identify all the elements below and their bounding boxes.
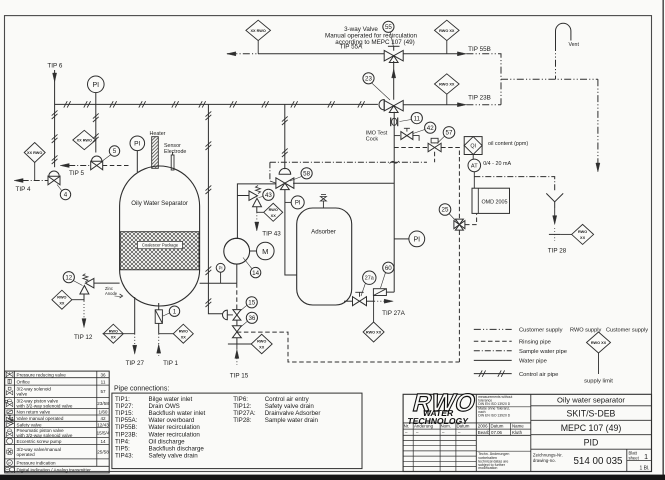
rinse loop pipe [237,332,460,362]
control air slashes v1 [52,110,58,115]
PI gauge separator [130,136,145,151]
PI gauge riser [409,231,425,247]
svg-text:Pressure indication: Pressure indication [17,461,57,466]
svg-text:TIP 4: TIP 4 [16,186,31,193]
legend control air line [474,373,512,375]
svg-text:Nr.: Nr. [404,424,410,429]
svg-text:TIP55A:: TIP55A: [115,417,138,424]
svg-text:RWO XX: RWO XX [591,341,607,345]
svg-text:23: 23 [365,76,372,83]
svg-text:XX: XX [259,346,265,350]
control air main vertical TIP6 [54,70,56,167]
arrow TIP 55B [457,52,466,56]
svg-text:15: 15 [248,300,255,307]
svg-text:36: 36 [248,315,255,322]
pipe TIP43 drain [256,207,258,213]
svg-text:Water recirculation: Water recirculation [149,424,201,431]
svg-text:XX: XX [181,335,187,339]
pipe overboard right segment [403,53,459,55]
svg-text:oil content (ppm): oil content (ppm) [488,141,528,147]
valve 15 piston [233,310,241,315]
svg-text:23/58: 23/58 [97,401,109,406]
svg-text:1: 1 [173,308,177,315]
label circle 43 [263,189,274,200]
svg-text:25: 25 [442,207,449,214]
svg-text:Control air entry: Control air entry [265,396,310,403]
svg-text:Safety valve: Safety valve [17,422,42,427]
svg-text:Safety valve drain: Safety valve drain [265,403,315,410]
valve 57 solenoid [428,143,435,152]
svg-text:57: 57 [446,130,453,137]
svg-text:PID: PID [584,437,599,447]
svg-text:TIP27A:: TIP27A: [233,410,256,417]
svg-text:TIP12:: TIP12: [233,403,252,410]
supply limit diamond TIP1 [173,324,193,343]
valve 58 3-way piston [276,178,285,189]
pipe TIP55A customer segment [227,53,258,55]
svg-text:12/43: 12/43 [97,422,109,427]
svg-text:TIP15:: TIP15: [115,410,134,417]
svg-text:TIP 43: TIP 43 [262,231,281,238]
valve 4 piston [48,176,54,185]
legend supply limit diamond [587,332,611,353]
svg-text:Cock: Cock [366,137,379,143]
label circle 14 [250,267,260,277]
svg-text:5: 5 [113,148,117,155]
svg-text:XX: XX [59,301,65,305]
svg-text:36: 36 [100,372,106,377]
pipe TIP15 [236,338,238,344]
svg-text:12: 12 [65,274,72,281]
supply limit diamond TIP12 [52,290,72,309]
pipe valve58 down to adsorber [285,189,297,275]
label circle 42 [425,122,436,133]
svg-text:Datum: Datum [491,424,504,429]
svg-text:Backflush discharge: Backflush discharge [149,446,205,453]
svg-text:QI: QI [470,143,476,149]
heater hatched rect [152,137,159,169]
control air branch valve58 [284,104,286,169]
eccentric screw pump 14 [224,238,250,264]
supply limit diamond TIP23B [435,74,460,94]
svg-text:TIP6:: TIP6: [233,396,248,403]
pipe valve5 to separator [103,165,131,167]
control air main horizontal [55,103,378,105]
svg-text:Customer supply: Customer supply [606,328,648,334]
svg-text:Nom.: Nom. [441,424,452,429]
label circle 36 [246,312,257,323]
label circle 27a [363,271,376,284]
svg-text:XX RWO: XX RWO [77,139,92,143]
svg-text:Water overboard: Water overboard [149,417,195,424]
svg-text:PI: PI [413,236,420,243]
svg-text:RWO: RWO [269,208,278,212]
pipe TIP1 inlet upper [158,303,160,334]
svg-text:XX: XX [271,214,277,218]
rinse pipe below valve25 [458,231,460,363]
svg-text:TIP4:: TIP4: [115,438,130,445]
label circle 11 [411,113,422,124]
supply limit diamond above overboard line [246,20,271,40]
control air slashes v2 [93,113,99,118]
svg-text:1 Bl.: 1 Bl. [639,465,649,471]
svg-text:sheet: sheet [629,455,640,460]
svg-text:11: 11 [414,115,421,122]
pipe valve58 outlet right [293,182,394,184]
svg-text:Non return valve: Non return valve [17,410,51,415]
IMO test cock 11 [390,118,392,127]
coalescer crosshatch band [120,232,199,270]
svg-text:RWO XX: RWO XX [439,29,455,33]
svg-text:Oil discharge: Oil discharge [149,438,186,445]
svg-text:Adsorber: Adsorber [311,229,336,236]
pipe TIP1 lower [158,334,160,356]
control air slashes v3 [282,116,288,121]
P gauge pump suction [216,263,225,272]
sample pipe horizontal [270,161,427,163]
valve 27a manual [353,297,360,306]
rinse riser to valve25 [458,157,460,219]
sample branch valve57 left [394,147,427,149]
sample pipe drop to valve58 [269,162,271,181]
pipe TIP5 left [69,165,91,167]
coalescer package label [138,242,183,249]
legend customer supply line [474,328,512,330]
svg-text:PI: PI [92,82,99,89]
svg-text:DIN EN ISO 13920 D: DIN EN ISO 13920 D [478,402,511,406]
sample out pipe to funnel [474,177,554,191]
svg-text:DIN EN ISO 13920 D: DIN EN ISO 13920 D [478,413,511,417]
label circle 57 [443,127,455,139]
pipe TIP4 [23,180,48,182]
control air slashes v4 [206,111,212,116]
label circle 1 [169,306,179,316]
valve 12 safety [85,278,94,288]
pipe pump discharge [237,184,276,238]
svg-text:TIP5:: TIP5: [115,446,130,453]
pipe pump suction down to valve15 [236,283,238,309]
scan right edge line [662,0,664,480]
customer pipe 55B corner [466,54,501,105]
svg-text:Water pipe: Water pipe [519,359,547,365]
svg-text:drawing-no.: drawing-no. [533,458,556,463]
valve 55 3-way manual [384,50,394,61]
svg-text:Sample water drain: Sample water drain [265,417,319,424]
actuator dome valve 58 [279,168,291,174]
pipe valve25 to OMD [465,214,477,225]
sample branch valve57 down [434,152,436,163]
label circle 60 [383,262,394,273]
adsorber vessel shell [297,208,352,305]
svg-text:TIP 1: TIP 1 [163,360,178,367]
supply limit diamond TIP28 [572,224,594,244]
svg-text:TIP23B:: TIP23B: [115,431,138,438]
svg-text:TIP 28: TIP 28 [548,247,567,254]
pipe branch to valve43 [237,195,249,197]
svg-text:1: 1 [644,454,648,461]
svg-text:Customer supply: Customer supply [519,328,563,334]
pipe pump suction vertical [236,264,238,283]
svg-text:Sample water pipe: Sample water pipe [519,349,567,355]
svg-text:TIP43:: TIP43: [115,453,134,460]
svg-text:Drainvalve Adsorber: Drainvalve Adsorber [265,410,321,417]
supply limit diamond TIP27 [103,324,123,343]
svg-text:42: 42 [100,416,106,421]
svg-text:2006: 2006 [478,424,488,429]
legend water pipe line [474,359,512,361]
svg-text:14: 14 [252,270,259,277]
customer pipe horizontal y79 [501,78,598,80]
pump motor M [257,242,275,260]
svg-text:Backflush water inlet: Backflush water inlet [149,410,206,417]
svg-text:TIP 55A: TIP 55A [340,43,363,50]
supply limit diamond TIP43 [264,203,283,221]
svg-text:PI: PI [134,141,140,148]
svg-text:with 3/2-way solenoid valve: with 3/2-way solenoid valve [17,433,73,438]
arrow TIP 4 [14,178,23,182]
svg-text:Valve manual operated: Valve manual operated [17,416,64,421]
label circle 15 [246,297,257,308]
supply limit diamond TIP4 [24,143,45,163]
pipe AT to OMD [473,172,475,189]
vent pipe [555,44,557,79]
svg-text:Bearb: Bearb [478,430,490,435]
legend rinsing pipe line [474,340,512,342]
svg-text:11: 11 [101,379,106,384]
svg-text:Drain OWS: Drain OWS [149,403,180,410]
svg-text:4: 4 [64,192,68,199]
svg-text:XX RWO: XX RWO [251,29,266,33]
svg-text:514 00 035: 514 00 035 [573,456,623,467]
label circle 55 [383,21,394,32]
svg-text:TIP 27A: TIP 27A [382,310,405,317]
svg-text:TIP 5: TIP 5 [69,170,84,177]
svg-text:1/60: 1/60 [99,410,108,415]
svg-text:58: 58 [303,171,310,178]
svg-text:RWO: RWO [109,329,118,333]
arrow TIP28 funnel [554,208,556,217]
svg-text:Safety valve drain: Safety valve drain [149,453,199,460]
svg-text:Digital indication / Analog tr: Digital indication / Analog transmitter [17,468,92,473]
svg-text:modification: modification [478,466,497,470]
svg-text:15/5/4: 15/5/4 [97,430,110,435]
svg-text:RWO: RWO [57,295,66,299]
svg-text:Orifice: Orifice [17,379,31,384]
label circle 58 [301,168,312,179]
svg-text:TIP 55B: TIP 55B [468,46,491,53]
arrow TIP 55A [227,52,236,56]
svg-text:M: M [262,247,268,256]
supply limit diamond TIP55B [435,20,460,40]
svg-text:Heater: Heater [150,131,166,137]
svg-text:TIP 23B: TIP 23B [468,95,491,102]
svg-text:27a: 27a [365,276,374,282]
control air branch valve15 [208,104,223,313]
svg-text:Datum: Datum [457,424,470,429]
PI gauge control air [88,76,105,93]
pipe adsorber drain [344,300,352,302]
svg-text:TIP 15: TIP 15 [230,373,249,380]
svg-text:PI: PI [219,265,223,270]
check valve 60 rect with diagonal [374,291,395,293]
supply limit diamond TIP15 [251,334,272,353]
supply limit diamond on valve5 branch [73,130,96,149]
check valve 1 rect with diagonal [155,310,162,324]
svg-text:Oily water separator: Oily water separator [557,396,625,405]
title block [403,394,651,471]
legend sample water line [474,350,512,352]
pipe vessel to valve12 [94,282,120,284]
svg-text:supply limit: supply limit [584,379,613,385]
valve 36 piston [232,326,241,332]
svg-text:TIP1:: TIP1: [115,396,130,403]
pipe recirc right segment [403,104,459,106]
pipe break squiggle [390,161,399,163]
valve 43 safety [249,191,258,200]
svg-text:Rinsing pipe: Rinsing pipe [519,339,551,345]
svg-text:TIP55B:: TIP55B: [115,424,138,431]
svg-text:14: 14 [100,439,106,444]
control air slashes h [64,101,67,107]
svg-text:TIP28:: TIP28: [233,417,252,424]
arrow TIP 6 [53,73,57,82]
svg-text:OMD 2005: OMD 2005 [481,199,507,205]
svg-text:SKIT/S-DEB: SKIT/S-DEB [567,409,616,419]
svg-text:TIP 12: TIP 12 [74,334,93,341]
svg-text:Coalescer Package: Coalescer Package [142,243,179,248]
valve 42 manual [394,135,400,137]
pipe TIP12 drain [83,294,85,301]
OMD 2005 box [472,188,510,213]
pipe vessel to pump suction [200,282,237,284]
svg-text:with 3/2-way solenoid valve: with 3/2-way solenoid valve [17,403,73,408]
valve 23 3-way piston [384,100,394,111]
svg-text:Vent: Vent [569,42,580,48]
separator vessel shell [120,166,200,306]
label circle 4 [60,189,70,199]
svg-text:RWO: RWO [578,230,587,234]
pipe TIP28 tick [549,233,561,235]
pipe TIP27 drain [134,297,136,334]
label circle 12 [63,272,74,283]
svg-text:Name: Name [512,424,524,429]
svg-text:XX RWO: XX RWO [27,151,42,155]
svg-text:Electrode: Electrode [164,149,186,155]
svg-text:Änderung: Änderung [414,424,434,429]
svg-text:MEPC 107 (49): MEPC 107 (49) [561,423,622,433]
label circle 23 [363,73,374,84]
svg-text:Control air pipe: Control air pipe [519,372,558,378]
drain funnel TIP28 [546,193,563,201]
svg-text:Pressure reducing valve: Pressure reducing valve [17,372,67,377]
svg-text:60: 60 [385,265,392,272]
pipe TIP27A [366,300,374,302]
svg-text:TIP 6: TIP 6 [47,63,62,70]
svg-text:RWO XX: RWO XX [439,83,455,87]
svg-text:RWO XX: RWO XX [366,331,382,335]
label circle 25 [439,204,451,216]
svg-text:57: 57 [100,389,106,394]
svg-text:PI: PI [295,201,301,207]
svg-text:43: 43 [265,192,272,199]
actuator dome valve 4 [49,171,59,176]
svg-text:RWO: RWO [179,329,188,333]
svg-text:42: 42 [427,125,434,132]
svg-text:Water recirculation: Water recirculation [149,431,201,438]
svg-text:25/58: 25/58 [97,450,109,455]
svg-text:AT: AT [471,163,478,169]
scan bottom black bar [0,475,665,480]
svg-text:valve: valve [17,392,28,397]
pipe valve15 to valve36 [236,320,238,325]
svg-text:Pipe connections:: Pipe connections: [114,385,169,392]
arrow TIP 23B [457,103,466,107]
svg-text:Oily Water Separator: Oily Water Separator [131,200,188,207]
sensor electrode rod [171,155,174,170]
svg-text:Bilge water inlet: Bilge water inlet [149,396,193,403]
supply limit diamond TIP27A [363,322,384,342]
main riser pipe [393,112,395,292]
svg-text:RWO: RWO [257,340,266,344]
pipe water overboard [258,53,384,55]
actuator dome valve 5 [92,156,102,161]
actuator dome valve 23 [379,100,384,110]
svg-text:operated: operated [17,452,36,457]
valve 25 cross [455,219,463,225]
AT transmitter [472,155,474,160]
svg-text:07.06: 07.06 [491,430,503,435]
label circle 5 [109,146,119,156]
symbol legend table [5,371,110,473]
QI oil content meter [464,137,482,155]
svg-text:XX: XX [580,236,586,240]
svg-text:Kluth: Kluth [512,430,523,435]
pipe TIP27 lower [134,334,136,346]
svg-text:TIP27:: TIP27: [115,403,134,410]
control air branch valve5 [95,104,97,152]
svg-text:XX: XX [111,335,117,339]
pipe connections box [112,393,362,469]
PI gauge adsorber inlet [291,196,304,209]
svg-text:TIP 27: TIP 27 [126,360,145,367]
customer drop pipe with arrow [597,79,599,170]
svg-text:55: 55 [385,24,392,31]
adsorber top vent valve [322,201,324,208]
svg-text:Eccentric screw pump: Eccentric screw pump [17,439,62,444]
valve 5 piston [91,161,97,170]
arrow TIP 5 [60,163,69,167]
svg-text:RWO supply: RWO supply [570,328,601,334]
svg-text:Anode: Anode [105,291,118,296]
pipe valve55 to valve23 with up arrow [393,61,395,100]
sample branch valve57 right [441,148,459,158]
customer pipe 23B stub [466,104,501,106]
svg-text:0/4 - 20 mA: 0/4 - 20 mA [483,161,511,167]
svg-text:Zeichnungs-Nr.: Zeichnungs-Nr. [533,452,563,457]
pipe orifice riser [373,292,375,301]
